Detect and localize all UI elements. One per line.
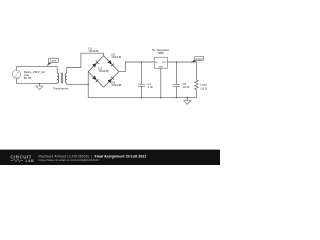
node regulator gnd <box>160 97 162 99</box>
D2 label <box>111 52 121 59</box>
svg-text:10 uF: 10 uF <box>182 85 190 89</box>
voltage source V1 Mains AC <box>12 70 21 79</box>
wire bottom rail <box>88 97 196 99</box>
footer bar <box>0 150 220 165</box>
svg-text:2.6 Ω: 2.6 Ω <box>200 87 207 91</box>
diode D1 <box>88 56 103 72</box>
D1 label <box>88 47 98 53</box>
svg-text:LAB: LAB <box>26 159 35 163</box>
C2 label <box>182 82 190 89</box>
wire source top <box>16 66 18 70</box>
svg-text:7805: 7805 <box>157 51 164 55</box>
wire bridge right to top rail <box>119 62 154 72</box>
node junction secondary/bridge <box>87 84 89 86</box>
wire secondary top to bridge <box>67 53 104 67</box>
regulator U1 7805 <box>154 57 167 97</box>
svg-text:Input: Input <box>51 60 57 63</box>
D4 label <box>111 80 121 87</box>
svg-text:50 Hz: 50 Hz <box>24 76 32 80</box>
Load label <box>200 83 207 91</box>
source label Mains_230V_AC <box>24 70 45 80</box>
resistor R1 Load <box>195 62 199 98</box>
svg-text:GND: GND <box>158 66 163 68</box>
node C1 bottom <box>141 97 143 99</box>
svg-text:1N4148: 1N4148 <box>111 83 121 87</box>
wire primary bottom rail <box>17 83 58 85</box>
flag Input <box>47 58 59 66</box>
svg-text:OUT: OUT <box>162 62 167 64</box>
svg-text:1N4148: 1N4148 <box>88 49 98 53</box>
CircuitLab logo <box>10 154 34 163</box>
diode D3 <box>88 72 103 88</box>
capacitor C2 <box>173 62 180 98</box>
C1 label <box>147 82 153 89</box>
node C2 bottom <box>176 97 178 99</box>
wire primary top rail <box>17 65 58 67</box>
diode D2 <box>104 56 119 72</box>
svg-text:1N4148: 1N4148 <box>98 69 108 73</box>
flag Output <box>191 56 204 63</box>
wire source bottom <box>16 79 18 84</box>
transformer T1 <box>57 66 66 84</box>
svg-text:Transformer: Transformer <box>53 87 68 91</box>
capacitor C1 <box>138 62 145 98</box>
wire regulator out <box>167 61 196 63</box>
node C1 top <box>141 61 143 63</box>
svg-text:https://www.circuitlab.com/cir: https://www.circuitlab.com/circuit/fq8dv… <box>39 158 100 162</box>
svg-text:1 uF: 1 uF <box>147 85 153 89</box>
node C2 top <box>176 61 178 63</box>
svg-text:1N4148: 1N4148 <box>111 55 121 59</box>
ground G2 <box>184 97 191 105</box>
regulator label <box>152 48 169 55</box>
diode D4 <box>104 72 119 88</box>
wire bridge left vertex down <box>87 72 89 98</box>
D3 label <box>98 66 108 73</box>
ground G1 <box>36 83 43 90</box>
svg-text:Output: Output <box>195 58 203 61</box>
wire secondary bottom <box>67 83 89 85</box>
